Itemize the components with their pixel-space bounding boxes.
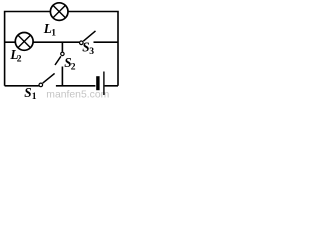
svg-text:1: 1: [32, 91, 37, 100]
svg-text:1: 1: [51, 27, 56, 38]
svg-text:2: 2: [71, 62, 76, 73]
svg-text:2: 2: [17, 53, 22, 64]
svg-text:3: 3: [89, 46, 94, 57]
svg-text:manfen5.com: manfen5.com: [46, 90, 109, 100]
svg-text:S: S: [24, 85, 31, 100]
